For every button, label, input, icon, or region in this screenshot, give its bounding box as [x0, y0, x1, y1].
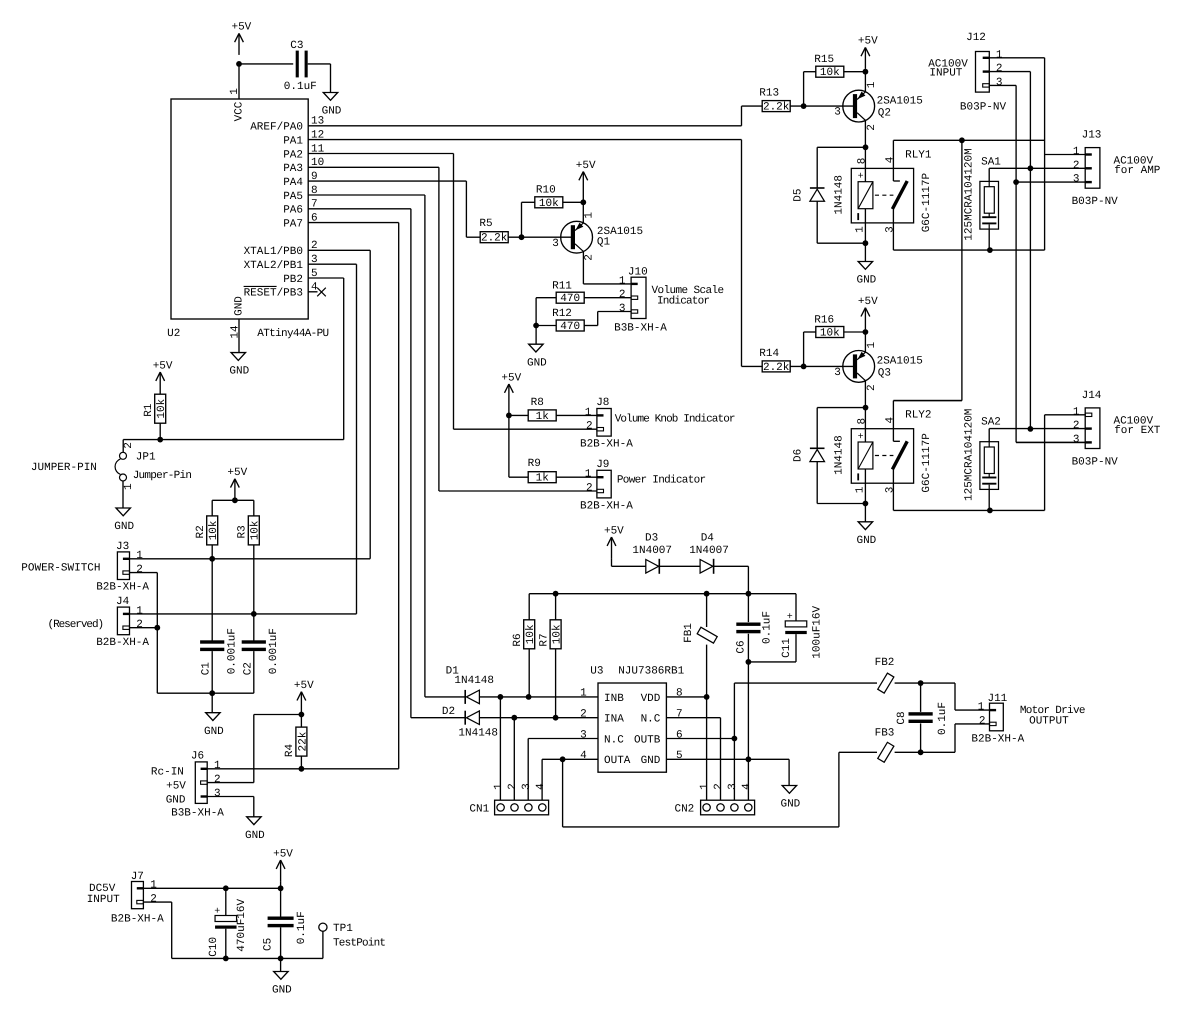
svg-text:B2B-XH-A: B2B-XH-A	[96, 637, 149, 649]
svg-text:Q1: Q1	[597, 237, 611, 249]
svg-text:1: 1	[136, 605, 143, 617]
svg-text:INA: INA	[604, 714, 624, 726]
svg-text:1N4007: 1N4007	[689, 545, 729, 557]
svg-text:R9: R9	[528, 458, 541, 470]
svg-text:3: 3	[521, 783, 533, 790]
svg-text:100uF16V: 100uF16V	[812, 605, 824, 658]
svg-text:+5V: +5V	[273, 848, 293, 860]
svg-text:1: 1	[996, 49, 1003, 61]
svg-text:2SA1015: 2SA1015	[877, 356, 923, 368]
svg-text:2: 2	[584, 254, 596, 261]
svg-text:8: 8	[676, 688, 683, 700]
svg-text:VDD: VDD	[641, 693, 661, 705]
svg-text:10k: 10k	[820, 328, 840, 340]
svg-text:CN2: CN2	[674, 804, 694, 816]
svg-text:+5V: +5V	[576, 160, 596, 172]
svg-text:10k: 10k	[552, 624, 564, 644]
svg-text:2: 2	[713, 783, 725, 790]
svg-text:10k: 10k	[539, 198, 559, 210]
svg-text:C10: C10	[208, 937, 220, 957]
svg-text:for EXT: for EXT	[1114, 425, 1161, 437]
svg-text:4: 4	[885, 156, 897, 163]
svg-text:R10: R10	[536, 185, 556, 197]
svg-text:+: +	[787, 612, 793, 623]
svg-text:GND: GND	[856, 275, 876, 287]
svg-text:R13: R13	[759, 88, 779, 100]
svg-text:J7: J7	[131, 871, 144, 883]
svg-text:SA1: SA1	[981, 156, 1001, 168]
svg-text:14: 14	[230, 325, 242, 339]
svg-text:B2B-XH-A: B2B-XH-A	[111, 913, 164, 925]
svg-text:ATtiny44A-PU: ATtiny44A-PU	[257, 328, 328, 340]
svg-text:2: 2	[979, 715, 986, 727]
svg-text:R3: R3	[237, 525, 249, 538]
svg-text:1: 1	[580, 688, 587, 700]
svg-text:4: 4	[580, 750, 587, 762]
svg-text:RLY2: RLY2	[905, 410, 931, 422]
svg-text:2: 2	[586, 482, 593, 494]
svg-text:1: 1	[123, 483, 135, 490]
svg-text:B2B-XH-A: B2B-XH-A	[580, 438, 633, 450]
svg-text:PA4: PA4	[283, 177, 303, 189]
svg-text:125MCRA104120M: 125MCRA104120M	[963, 148, 975, 240]
svg-text:OUTPUT: OUTPUT	[1029, 716, 1069, 728]
svg-text:1N4007: 1N4007	[632, 545, 672, 557]
svg-text:+5V: +5V	[858, 36, 878, 48]
svg-text:J11: J11	[987, 693, 1007, 705]
svg-text:1N4148: 1N4148	[458, 728, 498, 740]
svg-text:3: 3	[214, 788, 221, 800]
svg-text:8: 8	[856, 418, 868, 425]
svg-text:PA6: PA6	[283, 205, 303, 217]
svg-text:1: 1	[1073, 146, 1080, 158]
svg-text:1: 1	[1073, 406, 1080, 418]
svg-text:3: 3	[885, 487, 897, 494]
svg-text:470: 470	[560, 293, 580, 305]
svg-text:GND: GND	[204, 726, 224, 738]
svg-text:R7: R7	[538, 633, 550, 646]
svg-text:FB3: FB3	[875, 727, 895, 739]
svg-text:3: 3	[834, 367, 841, 379]
svg-text:J8: J8	[596, 397, 609, 409]
svg-text:Power Indicator: Power Indicator	[617, 475, 706, 487]
svg-text:U3: U3	[590, 666, 603, 678]
svg-text:Volume Knob Indicator: Volume Knob Indicator	[615, 413, 735, 425]
svg-text:2: 2	[996, 63, 1003, 75]
svg-text:1: 1	[585, 407, 592, 419]
svg-text:1: 1	[854, 486, 866, 493]
svg-text:R1: R1	[143, 403, 155, 417]
svg-text:4: 4	[885, 417, 897, 424]
svg-text:N.C: N.C	[641, 714, 661, 726]
svg-text:2: 2	[214, 774, 221, 786]
svg-text:N.C: N.C	[604, 734, 624, 746]
svg-text:1: 1	[136, 550, 143, 562]
svg-text:10k: 10k	[156, 398, 168, 418]
svg-text:470uF16V: 470uF16V	[236, 898, 248, 951]
svg-text:+5V: +5V	[501, 372, 521, 384]
svg-text:(Reserved): (Reserved)	[48, 619, 104, 631]
svg-text:OUTB: OUTB	[634, 734, 661, 746]
svg-text:CN1: CN1	[469, 804, 489, 816]
svg-text:G6C-1117P: G6C-1117P	[921, 433, 933, 493]
svg-text:5: 5	[676, 750, 683, 762]
svg-text:3: 3	[727, 783, 739, 790]
svg-text:GND: GND	[245, 830, 265, 842]
svg-text:+5V: +5V	[604, 525, 624, 537]
svg-text:D5: D5	[792, 188, 804, 201]
svg-text:B2B-XH-A: B2B-XH-A	[580, 501, 633, 513]
svg-text:+: +	[858, 172, 864, 183]
svg-text:FB2: FB2	[875, 657, 895, 669]
svg-text:470: 470	[560, 321, 580, 333]
svg-text:D2: D2	[442, 706, 455, 718]
svg-text:1: 1	[866, 342, 878, 349]
svg-text:C2: C2	[242, 662, 254, 675]
svg-text:J14: J14	[1082, 390, 1102, 402]
svg-text:1: 1	[978, 702, 985, 714]
svg-text:GND: GND	[780, 799, 800, 811]
svg-text:1: 1	[699, 783, 711, 790]
svg-text:10k: 10k	[250, 520, 262, 540]
svg-text:R2: R2	[195, 525, 207, 538]
svg-text:AREF/PA0: AREF/PA0	[250, 122, 303, 134]
svg-text:1: 1	[493, 783, 505, 790]
svg-text:J4: J4	[116, 596, 130, 608]
svg-text:Q3: Q3	[878, 368, 891, 380]
svg-text:C5: C5	[263, 938, 275, 951]
svg-text:JUMPER-PIN: JUMPER-PIN	[31, 462, 97, 474]
svg-text:1: 1	[854, 226, 866, 233]
svg-text:2SA1015: 2SA1015	[877, 95, 923, 107]
svg-text:C8: C8	[896, 711, 908, 724]
svg-text:GND: GND	[641, 755, 661, 767]
svg-text:R14: R14	[759, 348, 779, 360]
svg-text:D3: D3	[645, 532, 658, 544]
svg-text:Rc-IN: Rc-IN	[151, 767, 184, 779]
svg-text:U2: U2	[167, 328, 180, 340]
svg-text:+5V: +5V	[858, 296, 878, 308]
svg-text:1: 1	[150, 880, 157, 892]
svg-text:for AMP: for AMP	[1114, 165, 1161, 177]
svg-text:2: 2	[866, 124, 878, 131]
svg-text:R11: R11	[552, 280, 572, 292]
svg-text:B3B-XH-A: B3B-XH-A	[171, 807, 224, 819]
svg-text:INB: INB	[604, 693, 624, 705]
svg-text:B03P-NV: B03P-NV	[1072, 196, 1119, 208]
svg-text:+5V: +5V	[153, 360, 173, 372]
svg-text:1: 1	[619, 275, 626, 287]
svg-text:B2B-XH-A: B2B-XH-A	[971, 734, 1024, 746]
svg-text:8: 8	[856, 158, 868, 165]
svg-text:2: 2	[580, 709, 587, 721]
svg-text:XTAL1/PB0: XTAL1/PB0	[244, 246, 303, 258]
svg-text:1N4148: 1N4148	[833, 435, 845, 475]
svg-text:0.1uF: 0.1uF	[761, 611, 773, 644]
svg-text:D6: D6	[792, 449, 804, 462]
svg-text:0.1uF: 0.1uF	[296, 911, 308, 944]
svg-text:PA1: PA1	[283, 136, 303, 148]
svg-text:C6: C6	[736, 640, 748, 653]
svg-text:3: 3	[834, 107, 841, 119]
svg-text:FB1: FB1	[683, 623, 695, 643]
svg-text:GND: GND	[114, 521, 134, 533]
svg-text:2: 2	[150, 894, 157, 906]
svg-text:2: 2	[136, 619, 143, 631]
svg-text:GND: GND	[322, 106, 342, 118]
svg-text:R12: R12	[552, 308, 572, 320]
svg-text:SA2: SA2	[981, 417, 1001, 429]
svg-text:GND: GND	[166, 794, 186, 806]
svg-text:R8: R8	[531, 397, 544, 409]
svg-text:0.001uF: 0.001uF	[227, 628, 239, 674]
svg-text:J3: J3	[116, 541, 129, 553]
svg-text:22k: 22k	[297, 731, 309, 751]
svg-text:INPUT: INPUT	[929, 67, 962, 79]
svg-text:2: 2	[1073, 420, 1080, 432]
svg-text:PA7: PA7	[283, 219, 303, 231]
svg-text:RLY1: RLY1	[905, 149, 932, 161]
svg-text:2: 2	[619, 289, 626, 301]
svg-text:6: 6	[676, 729, 683, 741]
svg-text:+: +	[214, 907, 220, 918]
svg-text:2: 2	[586, 421, 593, 433]
svg-text:TP1: TP1	[333, 923, 353, 935]
svg-text:VCC: VCC	[234, 101, 246, 121]
svg-text:PA5: PA5	[283, 191, 303, 203]
svg-text:R5: R5	[479, 218, 492, 230]
svg-text:J13: J13	[1082, 130, 1102, 142]
svg-text:RESET/PB3: RESET/PB3	[244, 288, 303, 300]
svg-text:10k: 10k	[208, 520, 220, 540]
svg-text:R15: R15	[814, 54, 834, 66]
svg-text:2: 2	[866, 384, 878, 391]
svg-text:J6: J6	[191, 750, 204, 762]
svg-text:D4: D4	[701, 532, 715, 544]
svg-text:1k: 1k	[536, 473, 550, 485]
svg-text:2: 2	[123, 442, 135, 449]
svg-text:1: 1	[866, 81, 878, 88]
svg-text:DC5V: DC5V	[89, 883, 116, 895]
svg-text:C11: C11	[781, 638, 793, 658]
svg-text:2.2k: 2.2k	[763, 362, 790, 374]
svg-text:J10: J10	[628, 266, 648, 278]
svg-text:+5V: +5V	[231, 22, 251, 34]
svg-text:2: 2	[136, 564, 143, 576]
svg-text:GND: GND	[234, 296, 246, 316]
svg-text:3: 3	[885, 226, 897, 233]
svg-text:OUTA: OUTA	[604, 755, 631, 767]
svg-text:GND: GND	[229, 366, 249, 378]
svg-text:3: 3	[996, 77, 1003, 89]
svg-text:3: 3	[1073, 434, 1080, 446]
svg-text:1N4148: 1N4148	[833, 175, 845, 215]
svg-text:4: 4	[535, 783, 547, 790]
svg-text:GND: GND	[856, 535, 876, 547]
svg-text:POWER-SWITCH: POWER-SWITCH	[21, 563, 100, 575]
svg-text:R6: R6	[512, 633, 524, 646]
svg-text:B2B-XH-A: B2B-XH-A	[96, 582, 149, 594]
svg-text:B03P-NV: B03P-NV	[960, 102, 1007, 114]
svg-text:Indicator: Indicator	[657, 295, 709, 307]
svg-text:1: 1	[214, 760, 221, 772]
svg-text:INPUT: INPUT	[87, 894, 120, 906]
svg-text:125MCRA104120M: 125MCRA104120M	[963, 409, 975, 501]
svg-text:J9: J9	[596, 459, 609, 471]
svg-text:NJU7386RB1: NJU7386RB1	[618, 666, 684, 678]
svg-text:2: 2	[507, 783, 519, 790]
svg-text:0.001uF: 0.001uF	[268, 628, 280, 674]
svg-text:Q2: Q2	[878, 107, 891, 119]
svg-text:3: 3	[580, 729, 587, 741]
svg-text:PA3: PA3	[283, 163, 303, 175]
svg-text:0.1uF: 0.1uF	[284, 81, 317, 93]
svg-text:B03P-NV: B03P-NV	[1072, 457, 1119, 469]
svg-text:2.2k: 2.2k	[763, 102, 790, 114]
svg-text:7: 7	[676, 709, 683, 721]
svg-text:B3B-XH-A: B3B-XH-A	[614, 322, 667, 334]
svg-text:3: 3	[552, 238, 559, 250]
svg-text:J12: J12	[966, 32, 986, 44]
svg-text:10k: 10k	[525, 624, 537, 644]
svg-text:PB2: PB2	[283, 274, 303, 286]
svg-text:+5V: +5V	[227, 467, 247, 479]
svg-text:1: 1	[584, 212, 596, 219]
svg-text:+5V: +5V	[166, 781, 186, 793]
svg-text:R4: R4	[284, 744, 296, 758]
svg-text:1k: 1k	[536, 411, 550, 423]
svg-text:Jumper-Pin: Jumper-Pin	[133, 470, 192, 482]
svg-text:C1: C1	[201, 662, 213, 676]
svg-text:GND: GND	[272, 985, 292, 997]
svg-text:10k: 10k	[820, 67, 840, 79]
svg-text:G6C-1117P: G6C-1117P	[921, 173, 933, 233]
svg-text:JP1: JP1	[136, 452, 156, 464]
svg-text:0.1uF: 0.1uF	[937, 702, 949, 735]
svg-text:TestPoint: TestPoint	[333, 937, 385, 949]
svg-text:2: 2	[1073, 160, 1080, 172]
svg-text:PA2: PA2	[283, 149, 303, 161]
svg-text:1: 1	[585, 469, 592, 481]
svg-text:4: 4	[741, 783, 753, 790]
svg-text:XTAL2/PB1: XTAL2/PB1	[244, 260, 304, 272]
svg-text:GND: GND	[527, 357, 547, 369]
svg-text:1N4148: 1N4148	[454, 675, 494, 687]
svg-text:3: 3	[619, 303, 626, 315]
svg-text:3: 3	[1073, 174, 1080, 186]
svg-text:2.2k: 2.2k	[481, 233, 508, 245]
svg-text:+: +	[858, 432, 864, 443]
svg-text:+5V: +5V	[294, 680, 314, 692]
svg-text:R16: R16	[814, 314, 834, 326]
svg-text:C3: C3	[290, 40, 303, 52]
